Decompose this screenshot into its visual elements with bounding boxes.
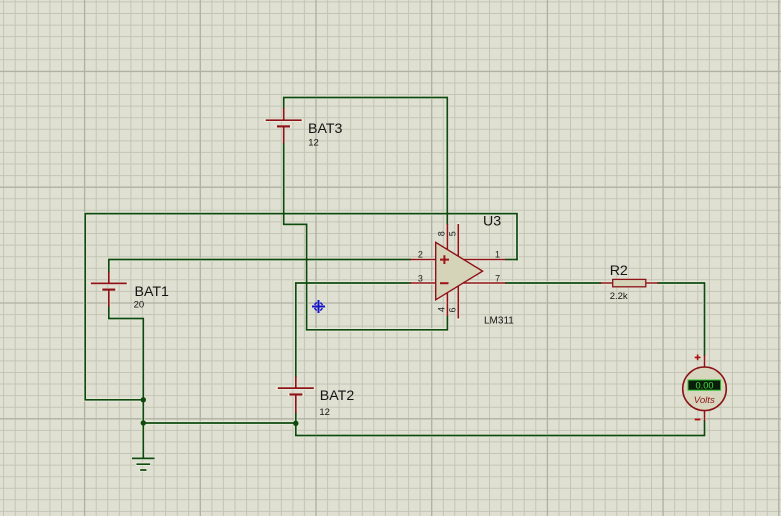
svg-text:7: 7 — [495, 274, 500, 284]
svg-text:5: 5 — [447, 231, 457, 236]
svg-text:BAT1: BAT1 — [135, 284, 170, 300]
svg-text:0.00: 0.00 — [695, 381, 713, 391]
svg-text:3: 3 — [418, 274, 423, 284]
svg-text:LM311: LM311 — [484, 315, 514, 326]
svg-text:4: 4 — [437, 307, 447, 312]
svg-text:Volts: Volts — [694, 395, 715, 406]
svg-text:R2: R2 — [610, 263, 628, 279]
svg-text:U3: U3 — [483, 214, 501, 230]
svg-text:BAT2: BAT2 — [320, 388, 355, 404]
svg-text:12: 12 — [308, 137, 319, 148]
svg-text:BAT3: BAT3 — [308, 121, 343, 137]
svg-text:2: 2 — [418, 250, 423, 260]
svg-text:20: 20 — [134, 300, 145, 311]
svg-text:2.2k: 2.2k — [610, 291, 628, 302]
svg-text:6: 6 — [447, 307, 457, 312]
svg-text:12: 12 — [319, 407, 330, 418]
svg-text:8: 8 — [437, 231, 447, 236]
svg-text:1: 1 — [495, 250, 500, 260]
